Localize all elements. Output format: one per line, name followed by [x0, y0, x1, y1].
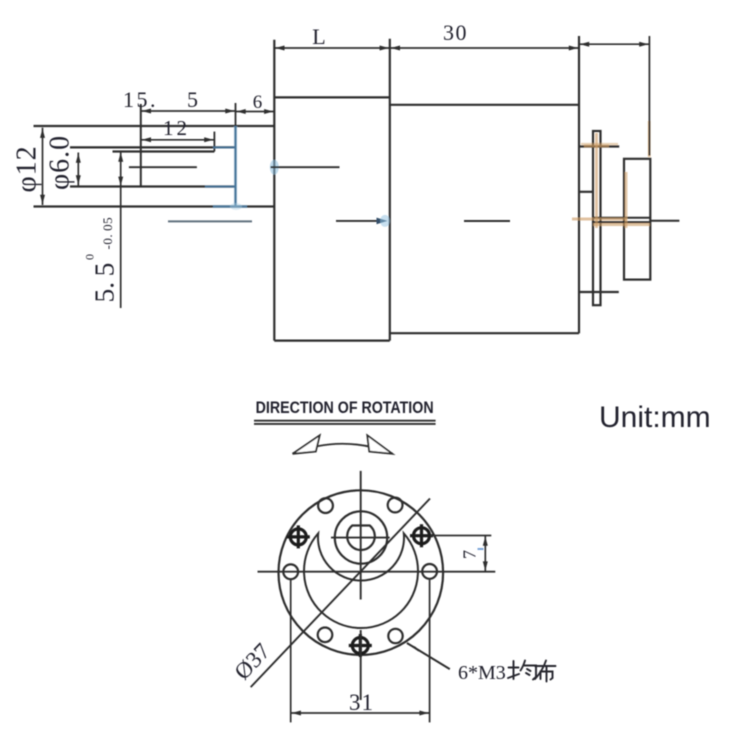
double underline	[254, 421, 436, 424]
rotation arrow right	[367, 435, 392, 454]
horizontal centerline through side holes	[258, 571, 496, 573]
blue glow blob at gearbox face / centerline crossing	[270, 160, 279, 175]
mounting hole bottom-left	[318, 628, 333, 643]
outer face circle	[279, 490, 444, 655]
blue mark near 7	[478, 548, 484, 550]
shaft centerline	[129, 166, 340, 168]
svg-text:DIRECTION OF ROTATION: DIRECTION OF ROTATION	[256, 399, 434, 417]
label phi37 (rotated)	[229, 638, 274, 684]
centerline arrowhead at gearbox right face	[377, 218, 388, 225]
rear bushing block	[624, 159, 650, 280]
shaft top edge	[70, 146, 236, 148]
dim 7 line	[484, 536, 486, 572]
svg-text:6: 6	[253, 92, 263, 113]
screw cross right	[410, 524, 433, 547]
label 7 (rotated)	[460, 550, 480, 559]
horizontal line through shaft center	[331, 537, 390, 539]
ext line right end	[648, 36, 650, 156]
svg-text:30: 30	[443, 20, 468, 45]
dim 5.5 line	[120, 153, 122, 309]
label 5.5 0/-0.05 (rotated)	[82, 217, 119, 303]
collar top line (with extension to left)	[34, 125, 275, 127]
hanzi BU (布) hand drawn	[535, 661, 556, 682]
shaft flat start vertical	[140, 104, 142, 186]
svg-text:6*M3: 6*M3	[458, 662, 506, 684]
svg-text:-0. 05: -0. 05	[100, 217, 115, 250]
ext line for 7 dim	[431, 535, 492, 537]
dim phi6 line	[77, 153, 79, 186]
hanzi JUN (均) hand drawn	[508, 661, 536, 680]
dim phi12 line	[42, 128, 44, 205]
mounting hole top-left	[318, 498, 333, 513]
label phi6.0 (rotated)	[45, 135, 76, 190]
mounting hole bottom-right	[388, 629, 402, 643]
end cap top tab line	[580, 145, 620, 147]
dim 30 line	[390, 47, 579, 49]
vertical centerline upper	[360, 471, 362, 600]
end cap upper short line	[580, 191, 594, 193]
dim 6 line	[236, 111, 275, 113]
vertical centerline lower	[360, 630, 362, 700]
mounting hole right	[422, 564, 437, 579]
svg-text:L: L	[312, 24, 325, 49]
dim 15.5 line	[141, 110, 236, 112]
svg-text:0: 0	[82, 254, 96, 260]
leader line for 6*M3	[407, 643, 450, 669]
flat end / 12-dim extension	[213, 132, 215, 152]
rear axle line upper	[593, 217, 650, 219]
svg-text:12: 12	[163, 116, 190, 140]
motor body	[390, 36, 579, 333]
front view centerlines	[251, 471, 496, 723]
end cap thin plate	[593, 131, 601, 305]
label phi12 (rotated)	[12, 145, 43, 192]
svg-text:5. 5: 5. 5	[88, 263, 119, 303]
ext lines 31	[290, 580, 292, 723]
mounting hole left	[283, 564, 298, 579]
blue tint on shaft lines near collar	[213, 146, 236, 148]
svg-text:φ6.0: φ6.0	[45, 135, 76, 190]
rotation arc	[293, 444, 393, 454]
collar face extension above	[235, 103, 237, 126]
motor centerline (gray segment)	[168, 220, 252, 222]
motor centerline segments	[336, 220, 510, 222]
dim 31 line	[291, 712, 430, 714]
rear axle line lower	[594, 221, 650, 223]
dim right unnamed line	[579, 43, 649, 45]
collar bottom line (with extension to left)	[34, 205, 275, 207]
mounting hole top-right	[388, 498, 403, 513]
svg-text:31: 31	[349, 690, 374, 715]
crescent cavity	[304, 533, 418, 628]
rotation arrow left	[293, 435, 320, 454]
svg-text:7: 7	[460, 550, 480, 559]
tan artifact marks near end cap	[572, 121, 650, 228]
svg-text:5: 5	[187, 87, 198, 112]
shaft flat line	[113, 150, 215, 152]
dim 12 line	[141, 139, 215, 141]
collar left face (blue artifact)	[234, 126, 238, 207]
shaft bottom edge	[70, 185, 236, 187]
dim L line	[274, 47, 390, 49]
svg-text:φ12: φ12	[12, 145, 43, 192]
rear shaft stub line	[650, 220, 679, 222]
arrowheads	[40, 42, 648, 204]
diagonal phi37 line	[251, 499, 430, 688]
bearing boss circle	[335, 511, 387, 563]
shaft D-section	[347, 526, 375, 551]
screw cross bottom	[349, 634, 372, 657]
screw cross left	[287, 525, 310, 548]
svg-text:Unit:mm: Unit:mm	[599, 401, 711, 434]
end cap bottom tab line	[580, 291, 619, 293]
svg-text:15.: 15.	[123, 87, 158, 112]
gearbox body	[274, 39, 390, 341]
